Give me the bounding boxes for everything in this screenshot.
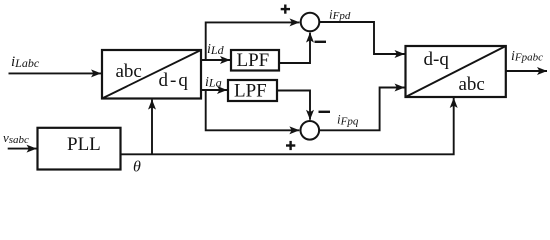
svg-text:iFpq: iFpq <box>337 112 359 128</box>
svg-text:iFpabc: iFpabc <box>511 49 543 64</box>
wire L1 output up to S1 minus input <box>279 33 310 63</box>
summing junction S1 (d channel) <box>301 13 320 32</box>
svg-text:LPF: LPF <box>237 50 270 71</box>
LPF block L1 (d channel) <box>231 50 279 71</box>
wire iLq branch down to S2 plus input <box>206 90 300 130</box>
svg-text:abc: abc <box>459 74 485 95</box>
svg-text:d-q: d-q <box>424 49 450 70</box>
block U2 d-q to abc transform <box>406 46 506 97</box>
svg-text:PLL: PLL <box>67 134 101 155</box>
svg-text:iLq: iLq <box>205 75 222 90</box>
svg-text:vsabc: vsabc <box>3 130 29 146</box>
svg-text:iLabc: iLabc <box>11 54 40 70</box>
wire L2 output down to S2 minus input <box>277 91 310 120</box>
block U1 abc to d-q transform <box>102 50 201 99</box>
wire theta branch up into U1 bottom <box>151 100 153 155</box>
wire iFpabc output arrow from U2 <box>506 70 547 72</box>
svg-text:abc: abc <box>116 61 142 82</box>
LPF block L2 (q channel) <box>228 80 277 101</box>
svg-text:iFpd: iFpd <box>329 6 351 22</box>
minus sign at S1 input <box>315 41 327 43</box>
wire iFpd from S1 to U2 d input <box>319 22 404 54</box>
wire vsabc input arrow into PLL <box>8 148 37 150</box>
summing junction S2 (q channel) <box>301 121 320 140</box>
svg-text:θ: θ <box>133 159 141 176</box>
plus sign at S2 input <box>286 141 295 150</box>
block U3 PLL <box>38 128 121 170</box>
wire iLd branch up to S1 plus input <box>206 22 300 60</box>
svg-text:d-q: d-q <box>159 70 190 91</box>
svg-text:iLd: iLd <box>207 42 225 57</box>
svg-text:LPF: LPF <box>234 81 267 102</box>
minus sign at S2 input <box>319 111 331 113</box>
wire iLq from U1 to L2 <box>201 89 227 91</box>
wire iLabc input arrow into U1 <box>9 72 102 74</box>
plus sign at S1 input <box>281 5 290 14</box>
wire iFpq from S2 to U2 q input <box>319 88 404 131</box>
wire theta from PLL to U2 bottom <box>121 98 454 154</box>
wire iLd from U1 to L1 <box>201 59 230 61</box>
